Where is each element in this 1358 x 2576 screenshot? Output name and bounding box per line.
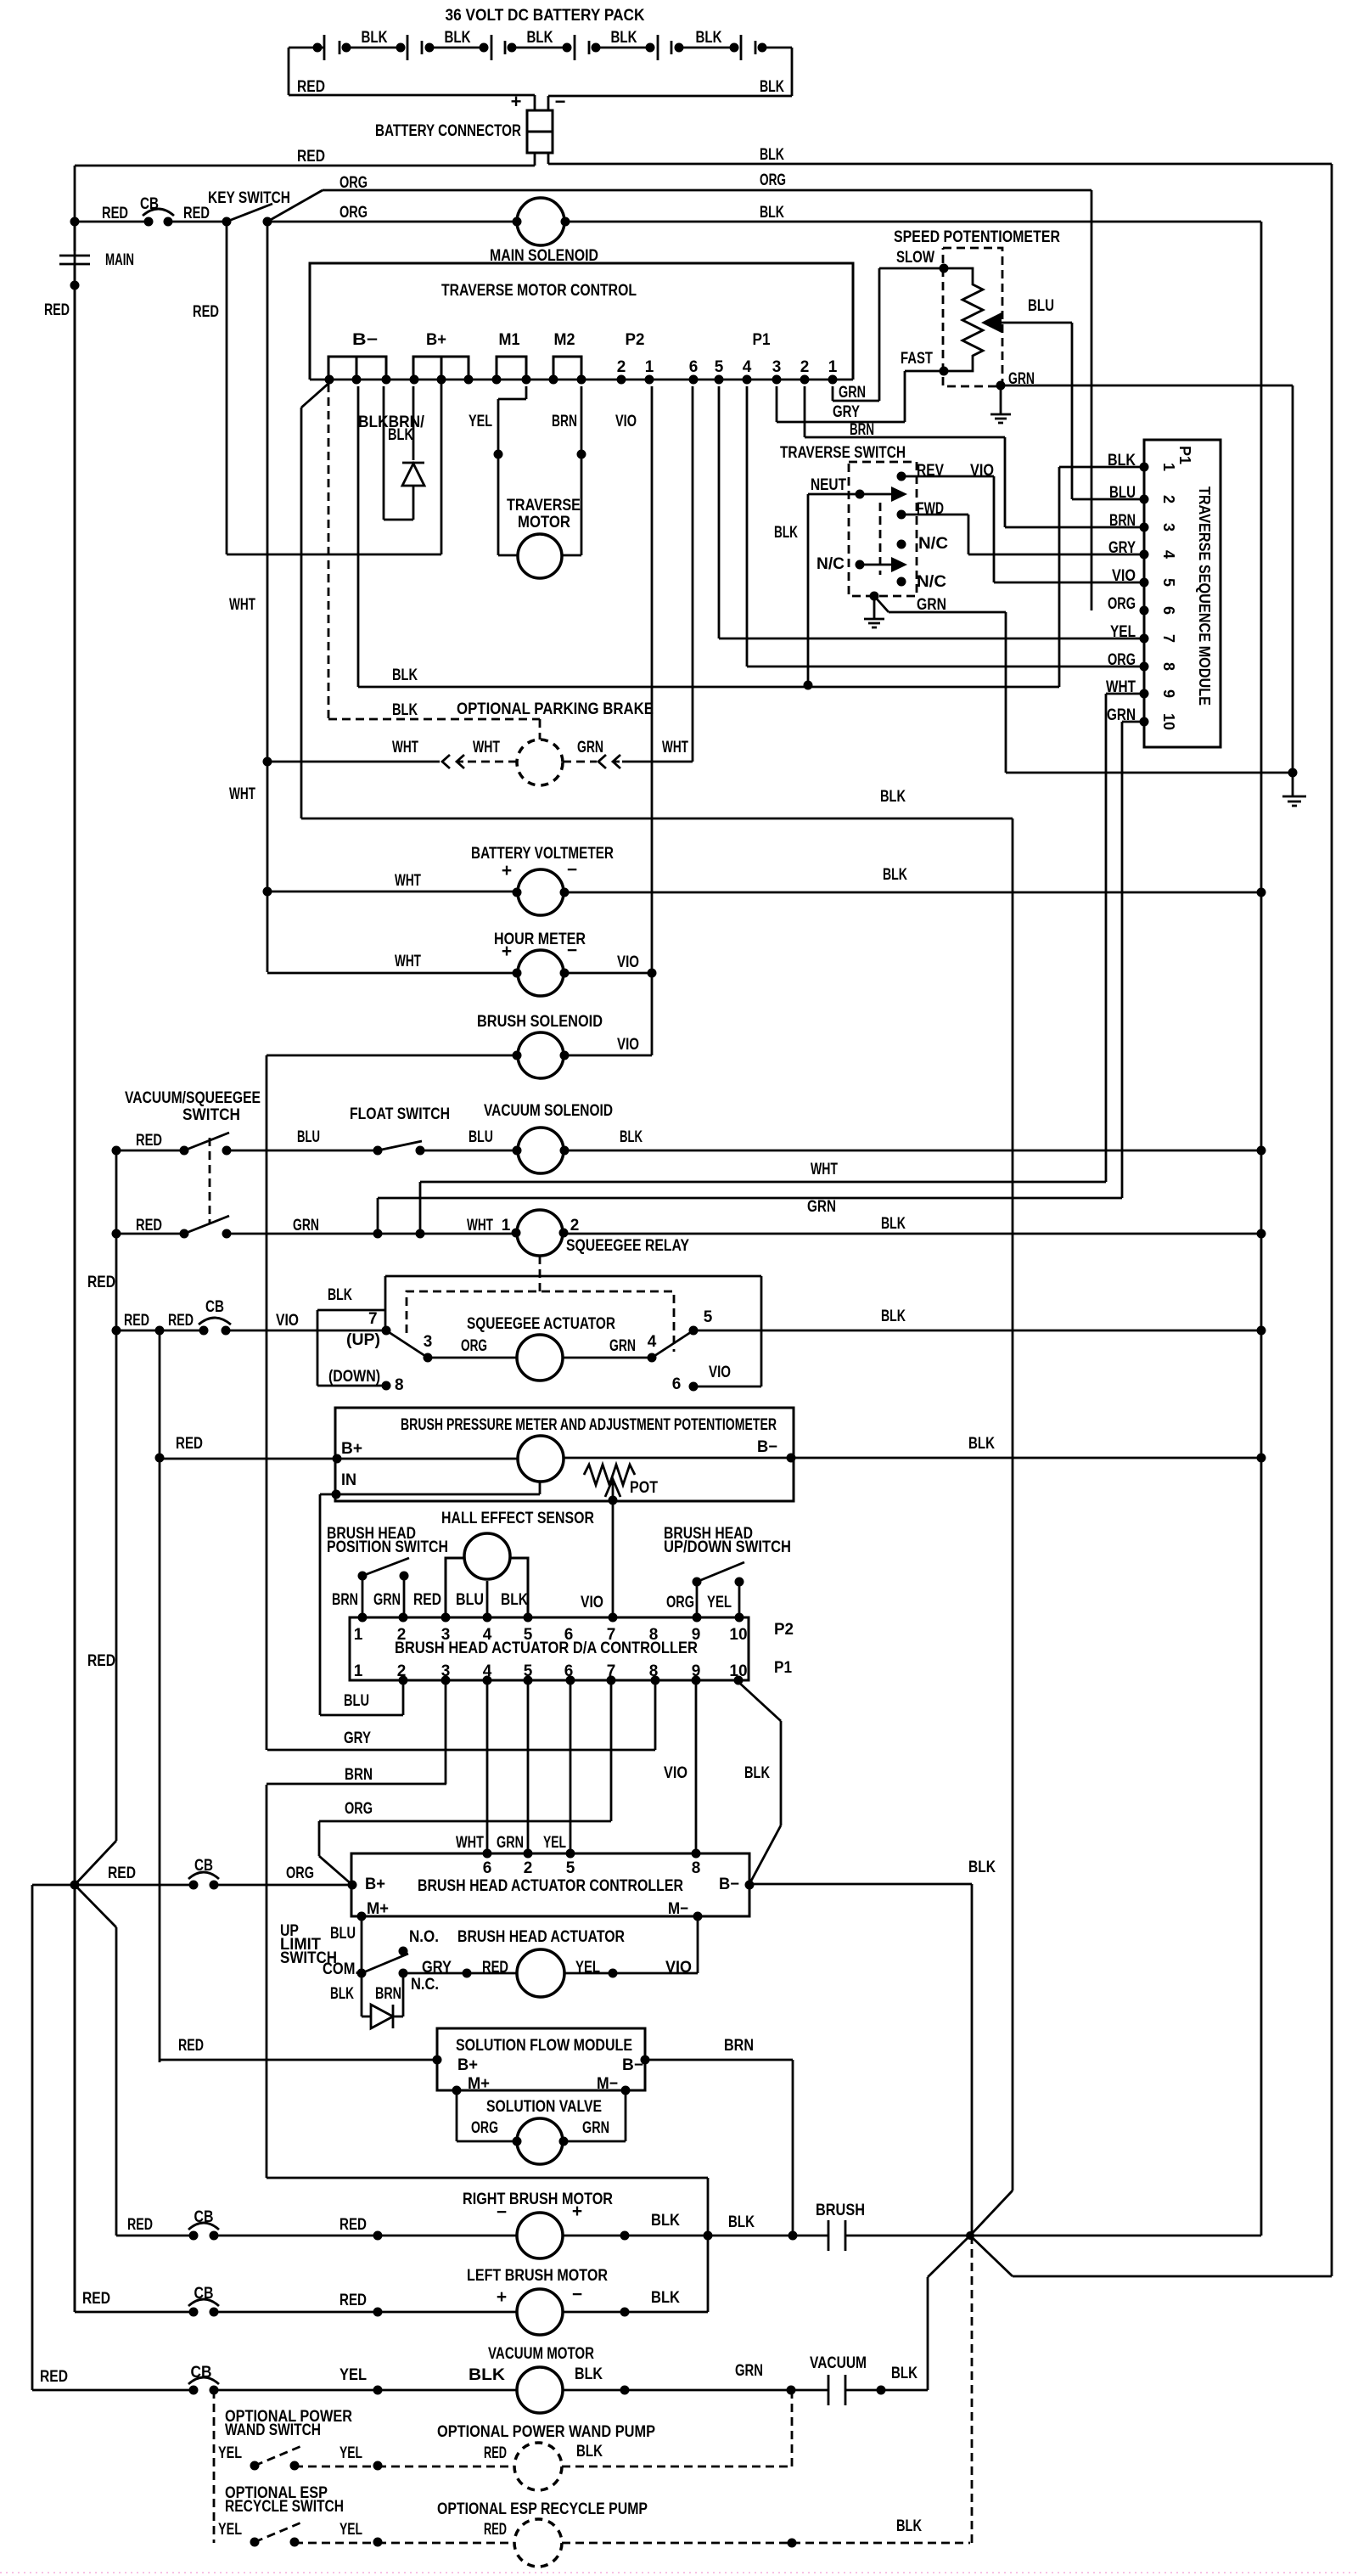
svg-text:RED: RED bbox=[413, 1591, 441, 1609]
svg-text:BLK: BLK bbox=[362, 29, 388, 47]
svg-text:FLOAT SWITCH: FLOAT SWITCH bbox=[350, 1105, 450, 1123]
svg-text:1: 1 bbox=[828, 358, 838, 376]
svg-text:GRN: GRN bbox=[1008, 370, 1035, 388]
svg-text:BLK: BLK bbox=[728, 2213, 755, 2231]
svg-text:VACUUM MOTOR: VACUUM MOTOR bbox=[488, 2345, 594, 2363]
svg-text:MAIN: MAIN bbox=[105, 251, 134, 269]
svg-text:5: 5 bbox=[566, 1859, 575, 1877]
svg-text:M+: M+ bbox=[367, 1900, 389, 1918]
svg-text:GRY: GRY bbox=[344, 1730, 371, 1747]
svg-text:BRUSH HEAD ACTUATOR: BRUSH HEAD ACTUATOR bbox=[457, 1928, 625, 1946]
svg-text:BLK: BLK bbox=[760, 146, 784, 164]
svg-text:B+: B+ bbox=[457, 2056, 478, 2074]
svg-text:SOLUTION FLOW MODULE: SOLUTION FLOW MODULE bbox=[456, 2037, 632, 2055]
svg-text:MOTOR: MOTOR bbox=[518, 514, 570, 532]
svg-text:COM.: COM. bbox=[323, 1960, 359, 1978]
svg-text:YEL: YEL bbox=[339, 2521, 362, 2539]
svg-text:N/C: N/C bbox=[816, 555, 845, 573]
svg-text:VACUUM: VACUUM bbox=[810, 2354, 867, 2372]
svg-text:M+: M+ bbox=[468, 2075, 490, 2093]
svg-text:P2: P2 bbox=[774, 1621, 794, 1639]
svg-text:VIO: VIO bbox=[709, 1364, 731, 1381]
svg-text:BLK: BLK bbox=[576, 2443, 603, 2461]
svg-text:GRN: GRN bbox=[373, 1591, 401, 1609]
svg-text:FAST: FAST bbox=[901, 350, 933, 368]
svg-text:WHT: WHT bbox=[1106, 678, 1136, 696]
svg-text:ORG: ORG bbox=[461, 1337, 487, 1355]
svg-text:1: 1 bbox=[645, 358, 654, 376]
svg-text:BLK: BLK bbox=[392, 701, 418, 719]
svg-text:VIO: VIO bbox=[665, 1959, 692, 1977]
svg-text:2: 2 bbox=[1160, 495, 1177, 503]
svg-text:SQUEEGEE ACTUATOR: SQUEEGEE ACTUATOR bbox=[467, 1315, 615, 1333]
svg-text:2: 2 bbox=[397, 1662, 407, 1680]
svg-text:BLK: BLK bbox=[620, 1128, 643, 1146]
svg-text:RECYCLE SWITCH: RECYCLE SWITCH bbox=[225, 2498, 344, 2516]
svg-text:BRUSH HEAD ACTUATOR CONTROLLER: BRUSH HEAD ACTUATOR CONTROLLER bbox=[418, 1877, 683, 1895]
svg-text:REV: REV bbox=[917, 462, 944, 480]
svg-text:RED: RED bbox=[339, 2292, 367, 2309]
svg-text:B+: B+ bbox=[365, 1876, 385, 1893]
svg-text:8: 8 bbox=[1160, 662, 1177, 671]
svg-text:GRN: GRN bbox=[807, 1198, 836, 1216]
svg-text:YEL: YEL bbox=[1110, 623, 1136, 641]
svg-text:BLK: BLK bbox=[883, 866, 907, 884]
svg-text:+: + bbox=[511, 91, 522, 112]
svg-text:BLU: BLU bbox=[1028, 297, 1054, 315]
svg-text:RED: RED bbox=[183, 205, 210, 222]
svg-text:BLK: BLK bbox=[880, 788, 906, 806]
svg-text:SOLUTION VALVE: SOLUTION VALVE bbox=[486, 2098, 602, 2116]
svg-text:BLK: BLK bbox=[651, 2212, 680, 2230]
svg-text:YEL: YEL bbox=[469, 413, 492, 430]
svg-text:N/C: N/C bbox=[918, 535, 948, 553]
svg-text:6: 6 bbox=[564, 1662, 574, 1680]
svg-text:10: 10 bbox=[1160, 713, 1177, 730]
svg-text:WHT: WHT bbox=[229, 596, 255, 614]
svg-text:VACUUM SOLENOID: VACUUM SOLENOID bbox=[484, 1102, 613, 1120]
svg-text:ORG: ORG bbox=[339, 204, 368, 222]
svg-text:WHT: WHT bbox=[467, 1217, 493, 1235]
svg-text:GRN: GRN bbox=[917, 596, 946, 614]
svg-text:POSITION SWITCH: POSITION SWITCH bbox=[327, 1538, 448, 1556]
svg-text:BLK: BLK bbox=[774, 524, 798, 542]
svg-text:RED: RED bbox=[339, 2216, 367, 2234]
svg-text:N.O.: N.O. bbox=[409, 1928, 439, 1946]
svg-text:6: 6 bbox=[564, 1626, 574, 1644]
svg-text:WHT: WHT bbox=[456, 1834, 484, 1852]
svg-text:+: + bbox=[502, 861, 512, 880]
svg-text:RED: RED bbox=[297, 78, 325, 96]
svg-text:VIO: VIO bbox=[617, 953, 639, 971]
svg-text:3: 3 bbox=[441, 1626, 451, 1644]
svg-text:WAND SWITCH: WAND SWITCH bbox=[225, 2421, 321, 2439]
svg-text:GRN: GRN bbox=[497, 1834, 524, 1852]
svg-text:SPEED POTENTIOMETER: SPEED POTENTIOMETER bbox=[894, 228, 1060, 246]
svg-text:3: 3 bbox=[441, 1662, 451, 1680]
svg-text:6: 6 bbox=[689, 358, 699, 376]
svg-text:BLK: BLK bbox=[469, 2366, 505, 2384]
svg-text:VIO: VIO bbox=[615, 413, 637, 430]
svg-text:4: 4 bbox=[1160, 550, 1177, 559]
svg-text:VIO: VIO bbox=[276, 1312, 299, 1330]
svg-text:ORG: ORG bbox=[1108, 651, 1136, 669]
svg-text:GRN: GRN bbox=[735, 2362, 763, 2380]
svg-text:RED: RED bbox=[484, 2444, 507, 2462]
svg-text:MAIN SOLENOID: MAIN SOLENOID bbox=[490, 247, 598, 265]
svg-text:IN: IN bbox=[341, 1471, 356, 1489]
svg-text:+: + bbox=[502, 942, 512, 961]
svg-text:VIO: VIO bbox=[1112, 567, 1136, 585]
svg-text:BLK: BLK bbox=[445, 29, 471, 47]
svg-text:WHT: WHT bbox=[473, 739, 500, 756]
svg-text:GRY: GRY bbox=[833, 403, 860, 421]
svg-text:P2: P2 bbox=[626, 331, 645, 349]
svg-text:BLK: BLK bbox=[611, 29, 637, 47]
svg-text:2: 2 bbox=[617, 358, 626, 376]
svg-text:RED: RED bbox=[87, 1652, 115, 1670]
svg-text:YEL: YEL bbox=[218, 2521, 242, 2539]
svg-text:TRAVERSE: TRAVERSE bbox=[507, 497, 581, 515]
svg-text:RED: RED bbox=[136, 1132, 162, 1150]
svg-text:BLK: BLK bbox=[696, 29, 722, 47]
svg-text:10: 10 bbox=[729, 1626, 747, 1644]
svg-text:BLK: BLK bbox=[527, 29, 553, 47]
svg-text:ORG: ORG bbox=[666, 1594, 694, 1611]
svg-text:5: 5 bbox=[524, 1662, 533, 1680]
svg-text:9: 9 bbox=[692, 1662, 701, 1680]
svg-text:1: 1 bbox=[502, 1217, 511, 1235]
svg-text:6: 6 bbox=[1160, 606, 1177, 615]
svg-text:GRN: GRN bbox=[577, 739, 603, 756]
svg-text:RED: RED bbox=[482, 1959, 508, 1977]
svg-text:TRAVERSE MOTOR CONTROL: TRAVERSE MOTOR CONTROL bbox=[441, 282, 637, 300]
svg-text:SLOW: SLOW bbox=[896, 249, 934, 267]
svg-text:B−: B− bbox=[622, 2056, 643, 2074]
svg-text:BATTERY VOLTMETER: BATTERY VOLTMETER bbox=[471, 845, 614, 863]
svg-text:WHT: WHT bbox=[395, 953, 421, 970]
svg-text:VIO: VIO bbox=[970, 462, 994, 480]
svg-text:5: 5 bbox=[1160, 578, 1177, 587]
svg-text:ORG: ORG bbox=[345, 1800, 373, 1818]
svg-text:4: 4 bbox=[648, 1333, 657, 1351]
svg-text:B−: B− bbox=[352, 331, 378, 349]
svg-text:RED: RED bbox=[87, 1274, 115, 1291]
svg-text:CB: CB bbox=[194, 1857, 213, 1875]
svg-text:RED: RED bbox=[44, 301, 70, 319]
svg-text:BLU: BLU bbox=[330, 1925, 356, 1943]
svg-text:8: 8 bbox=[692, 1859, 701, 1877]
svg-text:GRN: GRN bbox=[1107, 706, 1136, 724]
svg-text:4: 4 bbox=[483, 1662, 492, 1680]
svg-text:9: 9 bbox=[692, 1626, 701, 1644]
svg-text:2: 2 bbox=[397, 1626, 407, 1644]
svg-text:36 VOLT DC BATTERY PACK: 36 VOLT DC BATTERY PACK bbox=[446, 7, 645, 25]
svg-text:7: 7 bbox=[1160, 634, 1177, 643]
svg-text:BRUSH PRESSURE METER AND ADJUS: BRUSH PRESSURE METER AND ADJUSTMENT POTE… bbox=[401, 1416, 777, 1434]
svg-text:LEFT BRUSH MOTOR: LEFT BRUSH MOTOR bbox=[467, 2267, 608, 2285]
svg-text:SQUEEGEE RELAY: SQUEEGEE RELAY bbox=[566, 1237, 689, 1255]
svg-text:OPTIONAL PARKING BRAKE: OPTIONAL PARKING BRAKE bbox=[457, 700, 654, 718]
svg-text:M1: M1 bbox=[499, 331, 520, 349]
svg-text:B−: B− bbox=[719, 1876, 739, 1893]
svg-text:BRUSH: BRUSH bbox=[816, 2202, 865, 2219]
svg-text:5: 5 bbox=[524, 1626, 533, 1644]
svg-text:GRN: GRN bbox=[609, 1337, 636, 1355]
svg-text:RED: RED bbox=[176, 1435, 203, 1453]
svg-text:BLK: BLK bbox=[881, 1215, 906, 1233]
svg-text:BLK: BLK bbox=[330, 1985, 354, 2003]
svg-text:2: 2 bbox=[800, 358, 810, 376]
svg-text:−: − bbox=[572, 2285, 582, 2304]
svg-text:P1: P1 bbox=[1176, 446, 1193, 464]
svg-text:ORG: ORG bbox=[1108, 595, 1136, 613]
svg-text:4: 4 bbox=[743, 358, 752, 376]
svg-text:M−: M− bbox=[597, 2075, 618, 2093]
svg-text:BRN: BRN bbox=[724, 2037, 754, 2055]
svg-text:RED: RED bbox=[297, 148, 325, 166]
svg-text:7: 7 bbox=[368, 1310, 378, 1328]
svg-text:RED: RED bbox=[108, 1865, 136, 1882]
svg-text:YEL: YEL bbox=[218, 2444, 242, 2462]
svg-text:BLK: BLK bbox=[968, 1859, 996, 1876]
svg-text:BLU: BLU bbox=[297, 1128, 320, 1146]
svg-text:M−: M− bbox=[668, 1900, 688, 1918]
svg-text:SWITCH: SWITCH bbox=[182, 1106, 240, 1124]
svg-text:BLU: BLU bbox=[344, 1692, 369, 1710]
svg-text:YEL: YEL bbox=[575, 1959, 600, 1977]
svg-text:WHT: WHT bbox=[662, 739, 688, 756]
svg-text:RED: RED bbox=[136, 1217, 162, 1235]
svg-text:+: + bbox=[572, 2202, 582, 2221]
svg-text:CB: CB bbox=[140, 195, 159, 213]
svg-text:8: 8 bbox=[395, 1376, 404, 1394]
svg-text:BLK: BLK bbox=[651, 2289, 680, 2307]
svg-text:2: 2 bbox=[570, 1217, 580, 1235]
svg-text:N/C: N/C bbox=[917, 573, 946, 591]
svg-text:BRN: BRN bbox=[552, 413, 577, 430]
svg-text:GRN: GRN bbox=[293, 1217, 319, 1235]
svg-text:BLK: BLK bbox=[1108, 452, 1136, 470]
svg-text:WHT: WHT bbox=[395, 872, 421, 890]
svg-text:RED: RED bbox=[193, 303, 219, 321]
svg-text:3: 3 bbox=[1160, 523, 1177, 532]
svg-text:6: 6 bbox=[672, 1375, 682, 1393]
svg-text:1: 1 bbox=[1160, 463, 1177, 471]
svg-text:BRN: BRN bbox=[1109, 512, 1136, 530]
svg-text:NEUT: NEUT bbox=[811, 476, 846, 494]
svg-text:YEL: YEL bbox=[707, 1594, 732, 1611]
svg-text:BLU: BLU bbox=[456, 1591, 484, 1609]
svg-text:BLK: BLK bbox=[760, 78, 784, 96]
svg-text:BLK: BLK bbox=[881, 1308, 906, 1325]
svg-text:BLU: BLU bbox=[469, 1128, 493, 1146]
svg-text:BLK: BLK bbox=[760, 204, 784, 222]
svg-text:GRY: GRY bbox=[1108, 539, 1136, 557]
svg-text:B−: B− bbox=[757, 1438, 777, 1456]
svg-text:ORG: ORG bbox=[760, 172, 786, 189]
svg-text:RIGHT BRUSH MOTOR: RIGHT BRUSH MOTOR bbox=[463, 2191, 613, 2208]
svg-text:ORG: ORG bbox=[339, 174, 368, 192]
svg-text:3: 3 bbox=[772, 358, 782, 376]
svg-text:VIO: VIO bbox=[617, 1036, 639, 1054]
svg-text:YEL: YEL bbox=[339, 2444, 362, 2462]
svg-text:TRAVERSE SWITCH: TRAVERSE SWITCH bbox=[780, 444, 906, 462]
svg-text:YEL: YEL bbox=[339, 2366, 367, 2384]
svg-text:POT: POT bbox=[630, 1479, 658, 1497]
svg-text:M2: M2 bbox=[554, 331, 575, 349]
svg-text:1: 1 bbox=[354, 1626, 363, 1644]
svg-text:GRN: GRN bbox=[582, 2119, 609, 2137]
svg-text:7: 7 bbox=[607, 1662, 616, 1680]
svg-text:CB: CB bbox=[194, 2285, 214, 2303]
svg-text:BRN: BRN bbox=[345, 1766, 373, 1784]
svg-text:B+: B+ bbox=[341, 1440, 362, 1458]
svg-text:VIO: VIO bbox=[581, 1594, 603, 1611]
svg-text:1: 1 bbox=[354, 1662, 363, 1680]
svg-text:RED: RED bbox=[127, 2216, 153, 2234]
svg-text:WHT: WHT bbox=[229, 785, 255, 803]
svg-text:BLK: BLK bbox=[896, 2517, 922, 2535]
svg-text:8: 8 bbox=[649, 1662, 659, 1680]
svg-text:−: − bbox=[497, 2202, 507, 2222]
svg-text:BATTERY CONNECTOR: BATTERY CONNECTOR bbox=[375, 122, 521, 140]
svg-text:−: − bbox=[567, 860, 577, 880]
svg-text:BLK: BLK bbox=[388, 426, 413, 444]
svg-text:RED: RED bbox=[168, 1312, 194, 1330]
svg-text:5: 5 bbox=[715, 358, 724, 376]
svg-text:CB: CB bbox=[191, 2364, 212, 2382]
svg-text:HALL EFFECT SENSOR: HALL EFFECT SENSOR bbox=[441, 1510, 594, 1527]
svg-text:RED: RED bbox=[82, 2290, 110, 2308]
svg-text:CB: CB bbox=[194, 2208, 214, 2226]
svg-text:N.C.: N.C. bbox=[411, 1976, 439, 1994]
svg-text:B+: B+ bbox=[426, 331, 446, 349]
svg-text:BLK: BLK bbox=[392, 666, 418, 684]
svg-text:RED: RED bbox=[178, 2037, 204, 2055]
svg-text:BLK: BLK bbox=[501, 1591, 528, 1609]
svg-text:ORG: ORG bbox=[471, 2119, 498, 2137]
svg-text:BLK: BLK bbox=[328, 1286, 352, 1304]
svg-text:UP/DOWN SWITCH: UP/DOWN SWITCH bbox=[664, 1538, 791, 1556]
svg-text:+: + bbox=[497, 2287, 507, 2307]
svg-text:VIO: VIO bbox=[664, 1764, 687, 1782]
svg-text:−: − bbox=[567, 941, 577, 960]
svg-text:VACUUM/SQUEEGEE: VACUUM/SQUEEGEE bbox=[125, 1089, 261, 1107]
svg-text:WHT: WHT bbox=[392, 739, 418, 756]
svg-text:GRY: GRY bbox=[422, 1959, 452, 1977]
svg-text:KEY SWITCH: KEY SWITCH bbox=[208, 189, 290, 207]
svg-text:5: 5 bbox=[704, 1308, 713, 1326]
svg-text:BLK: BLK bbox=[891, 2365, 917, 2382]
svg-text:RED: RED bbox=[102, 205, 128, 222]
svg-text:3: 3 bbox=[424, 1333, 433, 1351]
svg-text:BLU: BLU bbox=[1109, 484, 1136, 502]
svg-text:CB: CB bbox=[205, 1298, 224, 1316]
svg-text:WHT: WHT bbox=[811, 1161, 838, 1178]
svg-text:4: 4 bbox=[483, 1626, 492, 1644]
svg-text:9: 9 bbox=[1160, 689, 1177, 698]
svg-text:7: 7 bbox=[607, 1626, 616, 1644]
svg-text:BLK: BLK bbox=[968, 1435, 995, 1453]
svg-text:10: 10 bbox=[729, 1662, 747, 1680]
svg-text:6: 6 bbox=[483, 1859, 492, 1877]
svg-text:ORG: ORG bbox=[286, 1865, 314, 1882]
svg-text:P1: P1 bbox=[753, 331, 771, 349]
svg-text:(DOWN): (DOWN) bbox=[328, 1368, 380, 1386]
svg-text:OPTIONAL POWER WAND PUMP: OPTIONAL POWER WAND PUMP bbox=[437, 2423, 655, 2441]
svg-text:RED: RED bbox=[484, 2521, 507, 2539]
svg-text:YEL: YEL bbox=[543, 1834, 566, 1852]
svg-text:BRUSH SOLENOID: BRUSH SOLENOID bbox=[477, 1013, 603, 1031]
svg-text:BLK: BLK bbox=[575, 2365, 603, 2383]
svg-text:RED: RED bbox=[124, 1312, 149, 1330]
svg-text:BRN: BRN bbox=[332, 1591, 358, 1609]
svg-text:BLK: BLK bbox=[744, 1764, 770, 1782]
svg-text:P1: P1 bbox=[774, 1659, 792, 1677]
svg-text:GRN: GRN bbox=[839, 384, 866, 402]
svg-text:BRN: BRN bbox=[375, 1985, 401, 2003]
svg-text:8: 8 bbox=[649, 1626, 659, 1644]
svg-text:FWD: FWD bbox=[917, 500, 944, 518]
svg-text:(UP): (UP) bbox=[346, 1331, 380, 1349]
svg-text:2: 2 bbox=[524, 1859, 533, 1877]
svg-text:RED: RED bbox=[40, 2368, 68, 2386]
svg-text:TRAVERSE SEQUENCE MODULE: TRAVERSE SEQUENCE MODULE bbox=[1196, 487, 1213, 706]
svg-text:OPTIONAL ESP RECYCLE PUMP: OPTIONAL ESP RECYCLE PUMP bbox=[437, 2500, 648, 2518]
svg-text:BRN: BRN bbox=[850, 421, 874, 439]
svg-text:−: − bbox=[555, 91, 566, 112]
